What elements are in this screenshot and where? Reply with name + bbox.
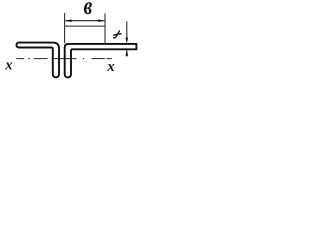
- B right arrow: [98, 19, 105, 22]
- label t (drawn): [114, 31, 121, 38]
- t dimension lines: [126, 22, 128, 57]
- t top arrow (down): [126, 38, 129, 44]
- board outline (thin): [65, 13, 105, 44]
- dimension line B: [65, 20, 104, 22]
- axis x-x dash-dot: [16, 58, 112, 60]
- svg-text:x: x: [106, 59, 114, 75]
- B left arrow: [65, 19, 72, 22]
- svg-text:x: x: [4, 57, 12, 73]
- t bottom arrow (up): [126, 50, 129, 56]
- svg-text:в: в: [84, 0, 93, 20]
- right sheet (flange + down leg): [65, 44, 137, 78]
- arrowheads: [65, 19, 128, 55]
- left sheet (flange + down leg): [16, 43, 59, 78]
